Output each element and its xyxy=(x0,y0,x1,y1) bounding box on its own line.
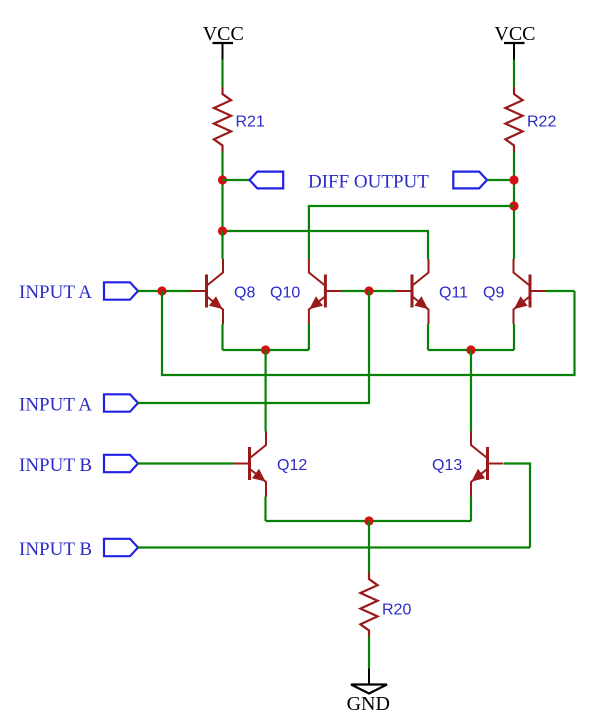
svg-text:R22: R22 xyxy=(527,114,556,131)
ground GND xyxy=(347,669,390,716)
svg-text:INPUT A: INPUT A xyxy=(19,395,92,416)
wire Q9 base right xyxy=(546,290,575,292)
wire VCC to R21 xyxy=(221,60,223,88)
svg-text:Q13: Q13 xyxy=(432,457,462,474)
junction right column y206 xyxy=(509,201,518,210)
transistor Q12 xyxy=(234,432,267,497)
junction left column y231 xyxy=(218,226,227,235)
svg-text:INPUT B: INPUT B xyxy=(19,455,92,476)
wire INPUT A row2 to Q10/Q11 bases xyxy=(138,291,369,403)
svg-text:INPUT A: INPUT A xyxy=(19,282,92,303)
wire left node to Q11 collector xyxy=(223,231,429,259)
resistor R20 xyxy=(360,572,377,637)
wire Q13 base to right riser xyxy=(504,464,530,548)
resistor R22 xyxy=(505,87,522,152)
wire INPUT B row4 to Q13 base riser xyxy=(138,546,530,548)
transistor Q11 xyxy=(396,259,429,324)
transistor Q8 xyxy=(191,259,224,324)
wire left pair to Q12 collector xyxy=(265,350,267,432)
wire Q10 collector cross to right node xyxy=(309,206,514,259)
svg-text:VCC: VCC xyxy=(494,23,535,45)
junction Q10/Q11 bases xyxy=(364,286,373,295)
junction right emitter pair xyxy=(466,345,475,354)
wire Q8 emitter down xyxy=(221,324,223,350)
wire Q13 emitter down xyxy=(470,497,472,522)
wire R22 down right column xyxy=(513,152,515,260)
power symbol VCC (right) xyxy=(494,23,535,60)
resistor R21 xyxy=(214,87,231,152)
junction left output node xyxy=(218,175,227,184)
svg-text:GND: GND xyxy=(347,693,390,715)
svg-text:VCC: VCC xyxy=(203,23,244,45)
wire R20 to ground xyxy=(368,637,370,669)
wire VCC to R22 xyxy=(513,60,515,88)
junction tail node xyxy=(364,516,373,525)
transistor Q9 (mirrored) xyxy=(514,259,547,324)
wire Q11/Q9 emitters join xyxy=(428,349,514,351)
svg-text:Q9: Q9 xyxy=(483,285,504,302)
port INPUT B (row 3) xyxy=(104,455,138,472)
svg-text:Q10: Q10 xyxy=(270,285,300,302)
wire R21 to output node xyxy=(221,152,223,232)
svg-text:DIFF OUTPUT: DIFF OUTPUT xyxy=(308,172,429,193)
wire Q10 base to Q11 base xyxy=(341,290,396,292)
wire node to left port xyxy=(223,179,251,181)
svg-text:R20: R20 xyxy=(382,602,411,619)
port DIFF OUTPUT (right, tip right) xyxy=(453,172,487,189)
wire right pair to Q13 collector xyxy=(470,350,472,432)
port INPUT A (row 2) xyxy=(104,394,138,411)
port DIFF OUTPUT (left, tip left) xyxy=(250,172,284,189)
wire port to Q12 base xyxy=(138,462,234,464)
transistor Q13 (mirrored) xyxy=(471,432,504,497)
svg-text:Q12: Q12 xyxy=(277,457,307,474)
junction right output node xyxy=(509,175,518,184)
power symbol VCC (left) xyxy=(203,23,244,60)
port INPUT B (row 4) xyxy=(104,539,138,556)
wire tail node to R20 xyxy=(368,521,370,572)
junction INPUT A row1 xyxy=(157,286,166,295)
wire port to Q8 base xyxy=(138,290,191,292)
wire Q12/Q13 emitters join xyxy=(266,520,472,522)
svg-text:Q11: Q11 xyxy=(439,285,468,302)
wire Q10 emitter down xyxy=(308,324,310,350)
wire Q9 emitter down xyxy=(513,324,515,350)
svg-text:Q8: Q8 xyxy=(234,285,255,302)
transistor Q10 (mirrored) xyxy=(309,259,342,324)
wire left node down to Q8 collector xyxy=(221,231,223,259)
svg-text:R21: R21 xyxy=(236,114,265,131)
wire Q12 emitter down xyxy=(264,497,266,522)
wire Q8/Q10 emitters join xyxy=(223,349,309,351)
junction left emitter pair xyxy=(261,345,270,354)
wire Q11 emitter down xyxy=(427,324,429,350)
wire INPUT A cross route to Q9 base xyxy=(162,291,575,375)
port INPUT A (row 1) xyxy=(104,282,138,299)
wire right port to right node xyxy=(487,179,514,181)
svg-text:INPUT B: INPUT B xyxy=(19,539,92,560)
